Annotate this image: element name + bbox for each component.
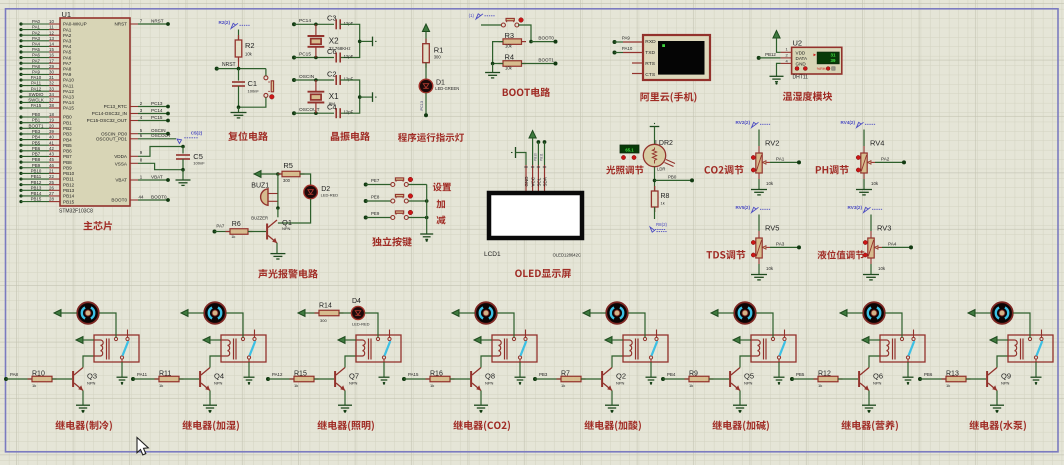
- svg-text:PB12: PB12: [31, 180, 42, 185]
- svg-text:C2: C2: [327, 69, 337, 78]
- svg-text:R2(2): R2(2): [219, 20, 231, 25]
- svg-text:NPN: NPN: [485, 380, 494, 385]
- svg-text:10k: 10k: [505, 44, 513, 49]
- svg-text:PA7: PA7: [32, 58, 41, 63]
- svg-text:R7: R7: [561, 370, 570, 377]
- svg-text:PB10: PB10: [63, 171, 75, 176]
- svg-text:RV2: RV2: [765, 139, 779, 148]
- svg-text:300: 300: [434, 55, 442, 60]
- svg-text:RV5: RV5: [765, 224, 779, 233]
- svg-text:10k: 10k: [766, 266, 774, 271]
- svg-text:29: 29: [49, 64, 54, 69]
- svg-text:R4: R4: [505, 53, 515, 62]
- svg-text:X2: X2: [329, 36, 339, 45]
- svg-text:44: 44: [139, 194, 144, 199]
- svg-text:PA10: PA10: [622, 46, 633, 51]
- svg-text:Q7: Q7: [349, 371, 359, 380]
- svg-text:Q8: Q8: [485, 371, 495, 380]
- svg-text:PC14: PC14: [299, 18, 311, 24]
- svg-text:CTS: CTS: [645, 72, 656, 78]
- svg-text:RV5(2): RV5(2): [736, 205, 751, 210]
- svg-text:R14: R14: [319, 303, 332, 310]
- svg-text:VBAT: VBAT: [151, 174, 163, 179]
- svg-text:PC13_RTC: PC13_RTC: [104, 104, 128, 109]
- svg-text:PA3: PA3: [32, 36, 41, 41]
- svg-text:PB12: PB12: [63, 182, 75, 187]
- svg-text:PA15: PA15: [31, 103, 42, 108]
- svg-text:R2: R2: [245, 41, 255, 50]
- svg-text:Q6: Q6: [873, 371, 883, 380]
- svg-text:12: 12: [49, 30, 54, 35]
- svg-text:PA5: PA5: [32, 47, 41, 52]
- svg-text:PA10: PA10: [63, 78, 74, 83]
- svg-text:34: 34: [49, 92, 54, 97]
- svg-text:PC14: PC14: [151, 108, 163, 113]
- svg-text:10k: 10k: [871, 181, 879, 186]
- svg-text:NPN: NPN: [214, 380, 223, 385]
- svg-text:PA7: PA7: [63, 61, 72, 66]
- svg-text:PA2: PA2: [32, 30, 41, 35]
- svg-text:12pF: 12pF: [344, 110, 354, 115]
- svg-text:PA2: PA2: [63, 33, 72, 38]
- svg-text:VDDA: VDDA: [114, 154, 128, 159]
- svg-text:21: 21: [49, 169, 54, 174]
- svg-text:PA11: PA11: [137, 372, 148, 377]
- svg-text:LED-RED: LED-RED: [352, 322, 370, 327]
- svg-text:30: 30: [49, 70, 54, 75]
- svg-text:PC15: PC15: [299, 51, 311, 57]
- svg-text:SWDIO: SWDIO: [29, 92, 44, 97]
- svg-text:1k: 1k: [818, 383, 822, 388]
- svg-text:16: 16: [49, 53, 54, 58]
- svg-text:28: 28: [49, 197, 54, 202]
- svg-text:GND: GND: [796, 61, 807, 66]
- svg-text:PC13: PC13: [151, 101, 163, 106]
- svg-text:R13: R13: [946, 370, 959, 377]
- svg-text:PB11: PB11: [31, 174, 42, 179]
- svg-text:PA9: PA9: [622, 35, 631, 40]
- svg-text:32.768KHz: 32.768KHz: [329, 46, 351, 51]
- svg-text:40: 40: [49, 135, 54, 140]
- svg-text:10k: 10k: [766, 181, 774, 186]
- svg-text:PA3: PA3: [776, 241, 785, 246]
- svg-text:BOOT0: BOOT0: [151, 194, 167, 199]
- svg-text:1k: 1k: [689, 383, 693, 388]
- svg-text:1k: 1k: [430, 383, 434, 388]
- svg-text:C5(2): C5(2): [191, 131, 203, 136]
- svg-text:OLED128642C: OLED128642C: [553, 253, 581, 258]
- svg-text:39: 39: [49, 129, 54, 134]
- svg-text:PC15: PC15: [151, 115, 163, 120]
- svg-text:18: 18: [49, 112, 54, 117]
- svg-text:10k: 10k: [245, 52, 253, 57]
- svg-text:PB8: PB8: [32, 157, 41, 162]
- svg-text:12pF: 12pF: [344, 77, 354, 82]
- svg-text:32: 32: [49, 81, 54, 86]
- svg-text:12pF: 12pF: [344, 21, 354, 26]
- svg-text:PA8: PA8: [32, 64, 41, 69]
- svg-text:PA12: PA12: [31, 86, 42, 91]
- svg-text:NPN: NPN: [349, 380, 358, 385]
- svg-text:PA15: PA15: [63, 106, 74, 111]
- svg-text:PA2: PA2: [881, 156, 890, 161]
- svg-text:1k: 1k: [294, 383, 298, 388]
- svg-text:RTS: RTS: [645, 61, 655, 67]
- svg-text:RV3: RV3: [877, 224, 891, 233]
- svg-text:PB11: PB11: [63, 177, 74, 182]
- svg-text:U2: U2: [793, 39, 803, 48]
- svg-text:1k: 1k: [159, 383, 163, 388]
- svg-text:R12: R12: [818, 370, 831, 377]
- svg-text:PB8: PB8: [63, 160, 72, 165]
- svg-text:DHT11: DHT11: [793, 75, 809, 81]
- svg-text:LED-RED: LED-RED: [321, 193, 339, 198]
- svg-text:PA13: PA13: [63, 95, 74, 100]
- svg-text:1k: 1k: [231, 234, 235, 239]
- svg-text:PB0: PB0: [63, 115, 72, 120]
- svg-text:PB12: PB12: [765, 52, 776, 57]
- svg-text:PA8: PA8: [63, 67, 72, 72]
- svg-text:PB5: PB5: [32, 140, 41, 145]
- svg-text:42: 42: [49, 146, 54, 151]
- svg-text:PA6: PA6: [63, 55, 72, 60]
- svg-text:11: 11: [49, 25, 54, 30]
- svg-text:PB0: PB0: [668, 175, 677, 180]
- svg-text:1k: 1k: [946, 383, 950, 388]
- svg-text:PB5: PB5: [796, 372, 805, 377]
- svg-text:33: 33: [49, 86, 54, 91]
- svg-text:15: 15: [49, 47, 54, 52]
- svg-text:37: 37: [49, 98, 54, 103]
- svg-text:PA3: PA3: [63, 39, 72, 44]
- svg-text:PA9: PA9: [32, 70, 41, 75]
- svg-text:10k: 10k: [505, 66, 513, 71]
- svg-text:R6: R6: [232, 221, 241, 228]
- svg-text:27: 27: [49, 191, 54, 196]
- svg-text:PA12: PA12: [63, 89, 74, 94]
- svg-text:300: 300: [283, 178, 291, 183]
- svg-text:PA1: PA1: [776, 156, 785, 161]
- svg-text:R3: R3: [505, 31, 515, 40]
- svg-text:R10: R10: [32, 370, 45, 377]
- svg-text:DATA: DATA: [796, 56, 809, 61]
- svg-text:PB9: PB9: [63, 165, 72, 170]
- svg-text:R15: R15: [294, 370, 307, 377]
- svg-text:PA9: PA9: [63, 72, 72, 77]
- svg-text:13: 13: [49, 36, 54, 41]
- svg-text:PB10: PB10: [31, 169, 42, 174]
- svg-text:PB13: PB13: [31, 185, 42, 190]
- svg-text:D4: D4: [352, 298, 361, 305]
- svg-text:RXD: RXD: [645, 39, 656, 45]
- svg-text:PB6: PB6: [924, 372, 933, 377]
- svg-text:(1): (1): [469, 13, 475, 18]
- svg-text:PB4: PB4: [667, 372, 676, 377]
- svg-text:VCC: VCC: [531, 176, 536, 186]
- svg-text:PC14-OSC32_IN: PC14-OSC32_IN: [92, 111, 127, 116]
- svg-text:41: 41: [49, 140, 54, 145]
- svg-text:PB14: PB14: [31, 191, 42, 196]
- svg-text:1k: 1k: [661, 201, 665, 206]
- svg-text:C1: C1: [248, 79, 258, 88]
- svg-text:PA8: PA8: [10, 372, 19, 377]
- svg-text:BOOT0: BOOT0: [111, 198, 127, 203]
- svg-text:Q9: Q9: [1001, 371, 1011, 380]
- svg-text:NRST: NRST: [222, 62, 236, 68]
- svg-text:R9: R9: [689, 370, 698, 377]
- svg-text:BOOT0: BOOT0: [538, 36, 554, 41]
- svg-text:PA4: PA4: [32, 42, 41, 47]
- svg-text:BUZZER: BUZZER: [251, 216, 268, 221]
- svg-text:PB14: PB14: [63, 194, 75, 199]
- svg-text:R11: R11: [159, 370, 171, 377]
- svg-text:PB15: PB15: [63, 199, 75, 204]
- svg-text:NPN: NPN: [744, 380, 753, 385]
- svg-text:C3: C3: [327, 14, 337, 23]
- svg-text:46: 46: [49, 163, 54, 168]
- svg-text:PA14: PA14: [63, 100, 74, 105]
- svg-text:X1: X1: [329, 92, 339, 101]
- svg-text:SWCLK: SWCLK: [28, 98, 44, 103]
- svg-text:PB13: PB13: [63, 188, 75, 193]
- svg-text:LDR: LDR: [657, 167, 665, 172]
- svg-text:31: 31: [49, 75, 54, 80]
- svg-text:OSCOUT_PD1: OSCOUT_PD1: [96, 137, 128, 142]
- svg-text:10: 10: [49, 19, 54, 24]
- svg-text:17: 17: [49, 58, 54, 63]
- svg-text:PC15-OSC32_OUT: PC15-OSC32_OUT: [87, 118, 128, 123]
- svg-text:PA12: PA12: [272, 372, 283, 377]
- svg-text:PB3: PB3: [539, 372, 548, 377]
- svg-text:R16: R16: [430, 370, 443, 377]
- svg-text:PB0: PB0: [32, 112, 41, 117]
- svg-text:PE9: PE9: [371, 211, 380, 216]
- svg-text:PA0: PA0: [32, 19, 41, 24]
- svg-text:GND: GND: [524, 176, 529, 187]
- svg-text:PA7: PA7: [216, 224, 225, 229]
- svg-text:PA1: PA1: [63, 27, 72, 32]
- svg-text:LED-GREEN: LED-GREEN: [435, 86, 459, 91]
- svg-text:Q2: Q2: [616, 371, 626, 380]
- svg-text:14: 14: [49, 42, 54, 47]
- svg-text:22: 22: [49, 174, 54, 179]
- svg-text:PE8: PE8: [371, 195, 380, 200]
- svg-text:RV2(2): RV2(2): [736, 120, 751, 125]
- svg-text:38: 38: [49, 103, 54, 108]
- svg-text:PE7: PE7: [371, 178, 380, 183]
- svg-text:PB5: PB5: [63, 143, 72, 148]
- svg-text:NPN: NPN: [87, 380, 96, 385]
- svg-text:43: 43: [49, 152, 54, 157]
- svg-text:45: 45: [49, 157, 54, 162]
- svg-text:RV4: RV4: [870, 139, 884, 148]
- svg-text:OSCOUT: OSCOUT: [151, 133, 171, 138]
- svg-text:PA11: PA11: [63, 83, 74, 88]
- svg-text:PB15: PB15: [31, 197, 42, 202]
- svg-text:BOOT1: BOOT1: [29, 123, 44, 128]
- svg-text:PB2: PB2: [63, 126, 72, 131]
- svg-text:PC13: PC13: [420, 101, 424, 111]
- svg-text:PB11: PB11: [540, 153, 544, 161]
- svg-text:PA11: PA11: [31, 81, 42, 86]
- svg-text:1k: 1k: [32, 383, 36, 388]
- svg-text:300: 300: [320, 318, 327, 323]
- svg-text:8M: 8M: [329, 102, 335, 107]
- svg-text:PA15: PA15: [408, 372, 419, 377]
- svg-text:NRST: NRST: [151, 18, 164, 23]
- svg-text:BOOT1: BOOT1: [538, 58, 554, 63]
- svg-text:SCL: SCL: [536, 177, 541, 186]
- svg-text:R8(2): R8(2): [656, 222, 668, 227]
- svg-text:PA0-WKUP: PA0-WKUP: [63, 22, 87, 27]
- svg-text:LCD1: LCD1: [484, 251, 501, 258]
- svg-text:25: 25: [49, 180, 54, 185]
- svg-text:12pF: 12pF: [344, 54, 354, 59]
- svg-text:100nF: 100nF: [248, 89, 260, 94]
- svg-text:Q4: Q4: [214, 371, 224, 380]
- svg-text:PB7: PB7: [32, 152, 41, 157]
- svg-text:PB9: PB9: [32, 163, 41, 168]
- svg-text:PB10: PB10: [534, 153, 538, 161]
- svg-text:PA10: PA10: [31, 75, 42, 80]
- svg-text:PA5: PA5: [63, 50, 72, 55]
- svg-text:PB3: PB3: [32, 129, 41, 134]
- svg-text:PA4: PA4: [888, 241, 897, 246]
- svg-text:VBAT: VBAT: [115, 178, 127, 183]
- svg-text:PB1: PB1: [63, 120, 72, 125]
- svg-text:%RH=: %RH=: [817, 67, 828, 71]
- svg-text:20: 20: [49, 123, 54, 128]
- svg-text:26: 26: [49, 185, 54, 190]
- svg-text:NPN: NPN: [282, 226, 291, 231]
- svg-text:PA1: PA1: [32, 25, 41, 30]
- svg-text:PB4: PB4: [32, 135, 41, 140]
- svg-text:R5: R5: [283, 161, 293, 170]
- svg-text:R8: R8: [661, 193, 670, 200]
- svg-text:10k: 10k: [878, 266, 886, 271]
- svg-text:PB3: PB3: [63, 132, 72, 137]
- svg-text:Q5: Q5: [744, 371, 754, 380]
- svg-text:VSSA: VSSA: [115, 162, 128, 167]
- svg-text:Q3: Q3: [87, 371, 97, 380]
- svg-text:PA4: PA4: [63, 44, 72, 49]
- svg-text:NPN: NPN: [616, 380, 625, 385]
- svg-text:PB4: PB4: [63, 137, 72, 142]
- svg-text:39: 39: [831, 58, 836, 63]
- svg-text:SDA: SDA: [542, 177, 547, 186]
- svg-text:STM32F103C8: STM32F103C8: [59, 209, 93, 215]
- svg-text:NPN: NPN: [1001, 380, 1010, 385]
- svg-text:65.1: 65.1: [625, 147, 634, 152]
- svg-text:PB6: PB6: [32, 146, 41, 151]
- svg-text:OSCIN: OSCIN: [299, 74, 315, 80]
- svg-text:RV3(2): RV3(2): [848, 205, 863, 210]
- svg-text:1k: 1k: [561, 383, 565, 388]
- svg-text:PB6: PB6: [63, 149, 72, 154]
- svg-text:19: 19: [49, 118, 54, 123]
- svg-text:PA6: PA6: [32, 53, 41, 58]
- svg-text:U1: U1: [62, 10, 72, 19]
- svg-text:VDD: VDD: [796, 51, 806, 56]
- svg-text:PB7: PB7: [63, 154, 72, 159]
- svg-text:100nF: 100nF: [193, 161, 205, 166]
- svg-text:PB1: PB1: [32, 118, 41, 123]
- svg-text:RV4(2): RV4(2): [841, 120, 856, 125]
- svg-text:NPN: NPN: [873, 380, 882, 385]
- svg-text:NRST: NRST: [114, 22, 127, 27]
- svg-text:TXD: TXD: [645, 50, 655, 56]
- svg-text:R1: R1: [434, 46, 444, 55]
